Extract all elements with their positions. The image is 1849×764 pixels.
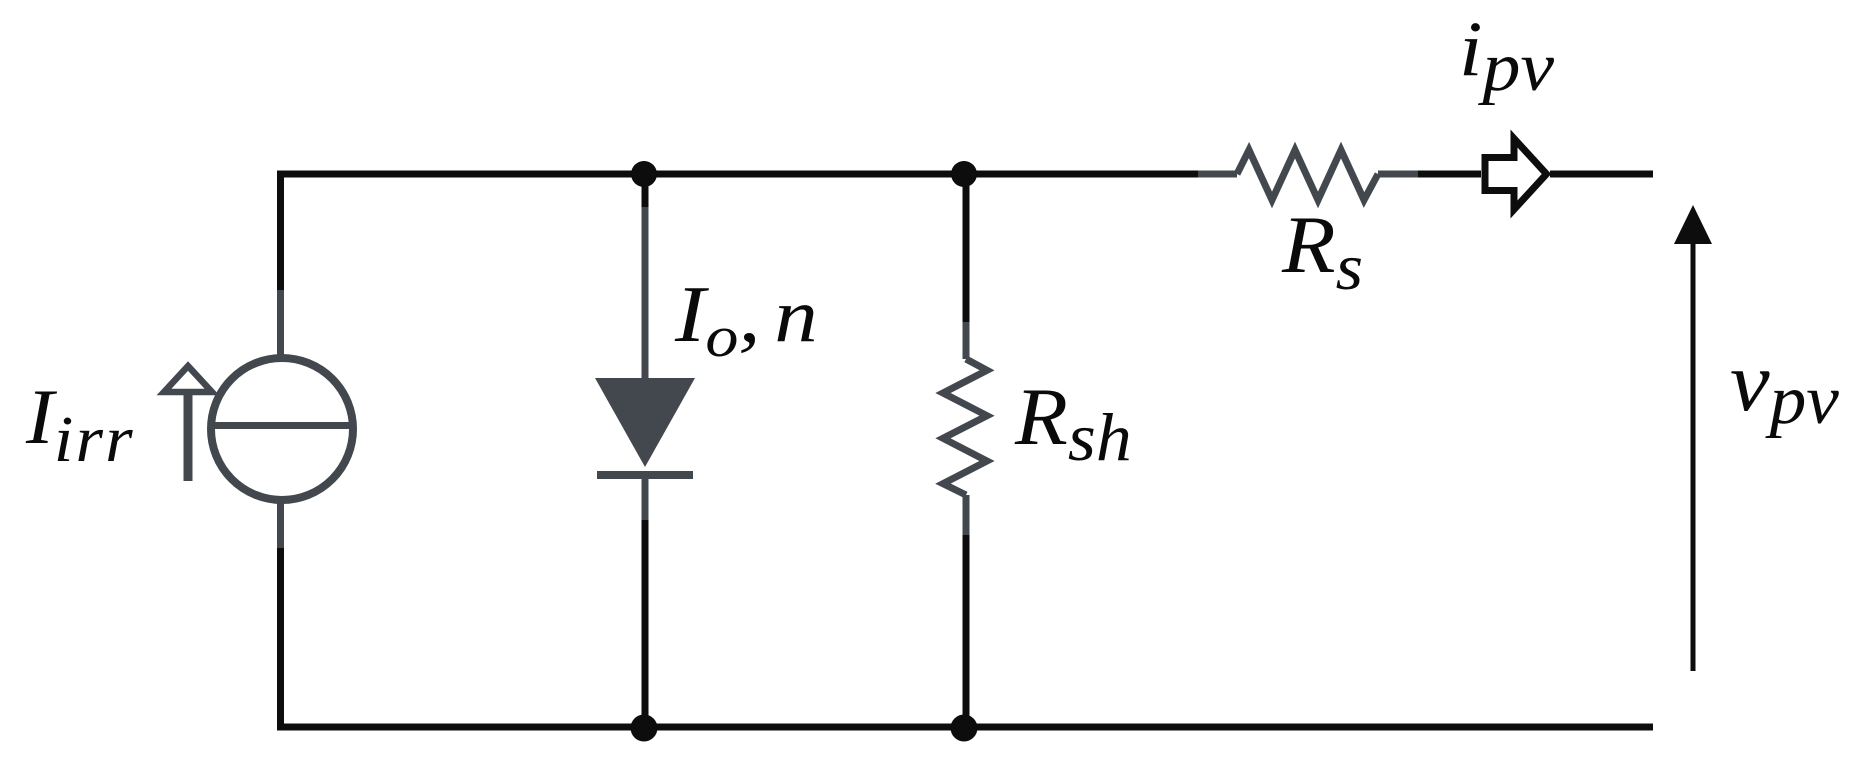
wire: top rail from current source to Rs: [277, 171, 1481, 178]
label Iirr: [25, 374, 135, 475]
label vpv: [1730, 334, 1839, 439]
node dot: bottom Rsh node: [951, 715, 978, 742]
resistor Rs: horizontal zigzag: [1237, 150, 1378, 200]
label ipv: [1459, 6, 1555, 105]
current source Iirr: horizontal chord: [211, 422, 353, 429]
wire: gray lead segment around Rs: [1198, 171, 1418, 178]
output block arrow ipv: [1485, 139, 1547, 210]
svg-text:Iirr: Iirr: [25, 374, 135, 475]
label Rsh: [1014, 372, 1132, 476]
current source direction arrow: hollow head: [164, 366, 212, 392]
node dot: top diode node: [631, 161, 657, 187]
wire: bottom rail: [277, 724, 1653, 731]
svg-text:ipv: ipv: [1459, 6, 1555, 105]
svg-text:vpv: vpv: [1730, 334, 1839, 439]
wire: diode gray leads: [642, 207, 649, 520]
voltage arrow vpv: filled head: [1674, 205, 1712, 244]
wire: output lead after arrow: [1550, 171, 1653, 178]
voltage arrow vpv: shaft: [1691, 240, 1696, 671]
node dot: bottom diode node: [631, 715, 658, 742]
svg-text:Io,n: Io,n: [674, 270, 818, 369]
diode D: triangle: [595, 378, 695, 467]
wire: diode branch vertical: [642, 174, 649, 727]
resistor Rsh: vertical zigzag: [943, 359, 987, 495]
label Io,n: [674, 270, 818, 369]
wire: left vertical branch: [277, 171, 284, 727]
diode D: cathode bar: [597, 471, 693, 479]
current source Iirr: circle: [211, 358, 353, 500]
node dot: top Rsh node: [951, 161, 977, 187]
current source direction arrow: shaft: [184, 388, 193, 481]
wire: Rsh gray leads: [963, 322, 970, 535]
wire: gray stubs of current source: [277, 290, 284, 548]
wire: Rsh branch vertical: [963, 174, 970, 727]
svg-text:Rs: Rs: [1281, 200, 1363, 304]
label Rs: [1281, 200, 1363, 304]
svg-text:Rsh: Rsh: [1014, 372, 1132, 476]
